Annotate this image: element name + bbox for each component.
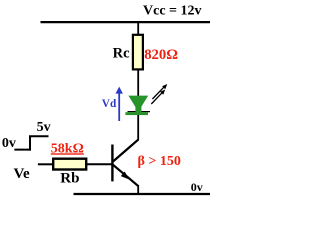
svg-text:Rc: Rc: [113, 46, 130, 62]
wire top supply rail: [41, 21, 211, 23]
input step waveform: [14, 136, 48, 150]
LED light emission arrows: [151, 84, 167, 104]
LED D1: [125, 96, 150, 116]
resistor Rc: [133, 35, 143, 70]
svg-text:0v: 0v: [2, 136, 16, 151]
wire Rc to LED anode: [137, 70, 139, 98]
wire Rb to base: [87, 163, 113, 165]
arrow Vd (diode voltage): [116, 87, 123, 121]
svg-text:β > 150: β > 150: [138, 154, 181, 169]
svg-text:5v: 5v: [37, 120, 51, 135]
resistor Rb: [53, 159, 86, 170]
wire bottom ground rail: [74, 193, 211, 195]
transistor Q1 (NPN): [112, 140, 138, 187]
svg-text:Rb: Rb: [60, 170, 79, 186]
wire Vcc rail to Rc: [137, 22, 139, 35]
svg-text:820Ω: 820Ω: [144, 47, 178, 63]
wire emitter to ground rail: [137, 185, 139, 194]
svg-text:Vd: Vd: [102, 98, 117, 110]
svg-text:Ve: Ve: [14, 166, 30, 182]
wire LED cathode to collector: [137, 115, 139, 141]
svg-text:0v: 0v: [191, 180, 203, 194]
wire Ve to Rb: [38, 163, 53, 165]
svg-text:Vcc = 12v: Vcc = 12v: [143, 4, 202, 19]
svg-text:58kΩ: 58kΩ: [51, 141, 84, 156]
